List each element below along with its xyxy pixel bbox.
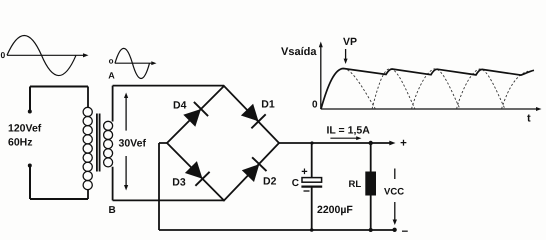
svg-text:o: o — [109, 56, 114, 65]
svg-text:C: C — [292, 178, 299, 189]
svg-text:−: − — [402, 226, 409, 237]
svg-text:D3: D3 — [172, 176, 186, 188]
svg-text:−: − — [303, 184, 310, 198]
svg-text:B: B — [109, 205, 116, 216]
svg-text:RL: RL — [349, 179, 362, 190]
svg-text:60Hz: 60Hz — [8, 137, 33, 149]
svg-text:Vsaída: Vsaída — [281, 46, 317, 58]
svg-text:2200µF: 2200µF — [317, 204, 353, 216]
svg-text:D2: D2 — [263, 176, 277, 188]
svg-text:t: t — [527, 113, 531, 125]
svg-text:0: 0 — [1, 50, 6, 60]
svg-text:A: A — [108, 71, 115, 81]
svg-text:IL = 1,5A: IL = 1,5A — [327, 125, 371, 137]
svg-text:VCC: VCC — [384, 187, 404, 198]
svg-text:+: + — [301, 166, 307, 178]
svg-text:+: + — [400, 138, 407, 150]
svg-text:30Vef: 30Vef — [119, 138, 147, 150]
svg-text:120Vef: 120Vef — [8, 123, 42, 135]
svg-text:0: 0 — [312, 100, 318, 111]
svg-text:D1: D1 — [261, 99, 275, 111]
svg-text:D4: D4 — [173, 100, 187, 112]
svg-text:VP: VP — [343, 36, 357, 48]
